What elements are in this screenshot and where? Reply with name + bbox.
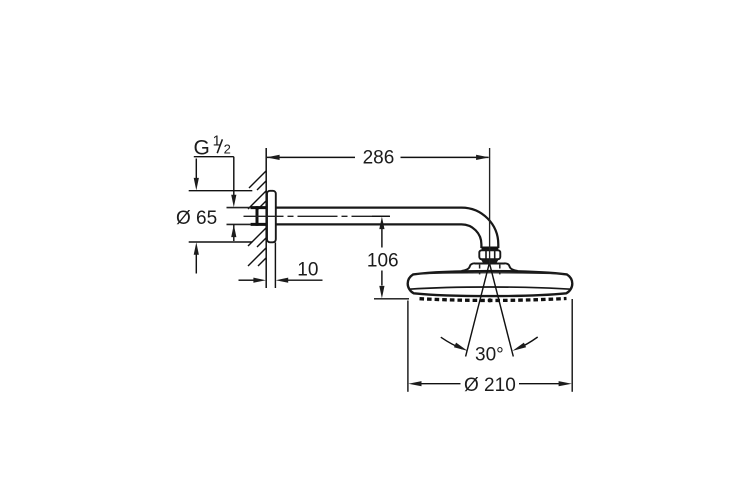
- pipe centerline: [244, 215, 390, 217]
- svg-text:10: 10: [297, 259, 318, 280]
- shower head outline: [408, 271, 573, 296]
- supply pipe behind wall: [227, 208, 251, 225]
- svg-text:Ø 65: Ø 65: [176, 208, 217, 229]
- wall line: [265, 148, 267, 288]
- svg-text:2: 2: [224, 142, 231, 157]
- dim 10: [239, 243, 323, 289]
- spray cone 30 deg lines: [466, 265, 514, 357]
- svg-text:286: 286: [363, 148, 395, 169]
- svg-text:Ø 210: Ø 210: [464, 375, 516, 396]
- G1/2 nipple behind wall (thick thread): [251, 206, 267, 226]
- head rim line: [409, 287, 570, 289]
- dim d210: [421, 383, 560, 385]
- center nozzle dot: [488, 298, 492, 302]
- dim 106: [372, 216, 409, 298]
- mount platform: [462, 263, 518, 271]
- nozzle band: [420, 299, 567, 301]
- shower arm: [276, 208, 498, 249]
- dim d65 arrows: [195, 159, 197, 274]
- G1/2 leader: [194, 157, 234, 241]
- dim d210 extension lines: [408, 299, 572, 392]
- connector nut: [479, 250, 500, 259]
- svg-text:30°: 30°: [475, 345, 504, 366]
- svg-text:106: 106: [367, 251, 399, 272]
- head top seam line: [417, 273, 563, 274]
- center axis extension line: [489, 148, 491, 265]
- wall hatching: [248, 171, 266, 266]
- escutcheon (wall rosette, side view): [267, 191, 276, 243]
- dim d65 extension lines: [189, 191, 253, 242]
- G 1/2 label: [194, 133, 231, 159]
- spray cone arc arrow left: [441, 337, 468, 351]
- svg-text:G: G: [194, 136, 210, 159]
- spray cone arc arrow right: [512, 337, 537, 351]
- connector ring: [482, 247, 498, 249]
- dim 286: [267, 156, 489, 158]
- connector collar (dark): [481, 259, 498, 262]
- hidden joint dashes: [480, 265, 500, 275]
